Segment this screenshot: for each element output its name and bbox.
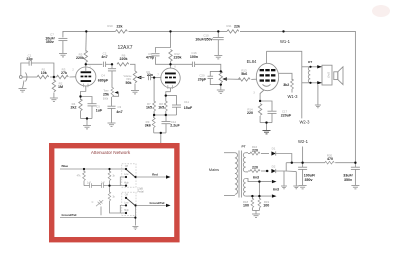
- transformer PT heater secondary: [244, 179, 246, 197]
- arrow OT top: [317, 65, 322, 68]
- wire W2-1: [302, 147, 304, 163]
- node rectifier out: [291, 162, 293, 164]
- svg-text:4n7: 4n7: [101, 55, 107, 59]
- capacitor C11 15uF: [166, 96, 177, 105]
- grid dashes V1b: [165, 77, 176, 79]
- transformer PT core: [238, 151, 240, 198]
- svg-text:3k2: 3k2: [283, 83, 289, 87]
- node sw2 common: [134, 204, 136, 206]
- resistor R10 22k (rail): [116, 30, 128, 33]
- svg-text:25k: 25k: [103, 92, 109, 96]
- node V1a cathode gnd: [86, 117, 88, 119]
- svg-text:350v: 350v: [46, 40, 54, 44]
- svg-text:470: 470: [327, 157, 333, 161]
- svg-text:100uF/: 100uF/: [304, 174, 315, 178]
- node heater r2a: [251, 195, 253, 197]
- wire grid leak drop: [153, 78, 155, 102]
- svg-text:220uF: 220uF: [281, 113, 292, 117]
- node master pot top: [220, 70, 222, 72]
- resistor RA 47k: [83, 169, 85, 172]
- OT primary coil: [302, 66, 309, 68]
- resistor R11 22k (rail): [227, 30, 239, 33]
- node W1-1: [282, 30, 284, 32]
- node sw1 pos2: [125, 176, 127, 178]
- wire sw1 feed mid: [120, 177, 126, 186]
- node D2 row: [266, 170, 268, 172]
- svg-text:22p: 22p: [26, 57, 33, 61]
- svg-text:C4: C4: [101, 74, 105, 78]
- svg-text:680pF: 680pF: [98, 78, 109, 82]
- svg-text:6v3: 6v3: [253, 176, 259, 180]
- wire Blue input: [60, 168, 126, 170]
- wire D2 gnd spur: [286, 170, 296, 173]
- potentiometer VR3 master: [219, 71, 222, 83]
- node input: [53, 76, 55, 78]
- svg-text:22k: 22k: [234, 24, 240, 28]
- wire to grid V1b: [154, 77, 161, 79]
- svg-text:Blue: Blue: [61, 164, 68, 168]
- svg-text:220: 220: [252, 148, 258, 152]
- node sw1 common: [134, 176, 136, 178]
- resistor R8 1k5 (V1b cathode): [165, 96, 167, 102]
- resistor R19 100: [258, 196, 260, 199]
- resistor R2 1M: [53, 77, 55, 81]
- capacitor C1 22p: [21, 63, 29, 76]
- resistor RB 1k: [109, 169, 111, 172]
- svg-text:4n7: 4n7: [116, 110, 122, 114]
- parallel C9 470p + R12 220k (V1b plate): [156, 31, 171, 52]
- wire sw2 out: [136, 204, 166, 206]
- node rail/V1b plate R: [169, 30, 171, 32]
- junction dots: [53, 30, 312, 134]
- svg-text:220: 220: [247, 111, 253, 115]
- svg-text:100: 100: [243, 203, 249, 207]
- svg-text:500k: 500k: [103, 97, 109, 100]
- resistor R1 10k: [37, 75, 49, 78]
- resistor R20 470: [325, 161, 334, 164]
- ground (C7): [59, 54, 67, 57]
- node blue RB: [108, 168, 110, 170]
- wire B+ dc rail: [286, 162, 325, 164]
- wire rail segment 2: [129, 30, 228, 32]
- PSU junction dots: [251, 162, 356, 198]
- heater pins V1b: [168, 85, 173, 89]
- resistor R17 220: [248, 170, 250, 172]
- svg-text:33uF/: 33uF/: [343, 174, 352, 178]
- capacitor CA 1uF: [84, 185, 89, 187]
- wiper VR3: [222, 77, 227, 80]
- ground (humdinger): [252, 214, 260, 217]
- arrow heater row2: [272, 194, 277, 197]
- svg-text:1k5: 1k5: [146, 105, 152, 109]
- wire sw2 feed mid: [120, 205, 126, 213]
- speaker icon: [334, 72, 338, 80]
- node heater r1: [258, 180, 260, 182]
- wire cathode bottom: [81, 118, 93, 120]
- grid dashes V1a: [81, 76, 92, 78]
- attenuator junction dots: [83, 168, 137, 219]
- svg-text:1uF: 1uF: [96, 109, 103, 113]
- resistor R9 3k6: [153, 115, 155, 118]
- resistor R3 27k: [57, 75, 69, 78]
- node tail: [160, 132, 162, 134]
- watermark smudge: [372, 5, 390, 17]
- ground (V1 cathode): [83, 126, 91, 129]
- cathode bar V1b: [165, 82, 176, 84]
- diode D1: [271, 151, 275, 155]
- resistor R5 220k (V1 plate load): [85, 31, 88, 51]
- capacitor C17 220uF: [260, 101, 272, 111]
- capacitor C18 100uF/350v: [302, 163, 304, 168]
- ground (R2): [50, 98, 58, 101]
- wire mid caps: [92, 185, 102, 187]
- ground (attenuator): [132, 227, 138, 230]
- plate bar V1a: [81, 71, 92, 73]
- node blue RA: [83, 168, 85, 170]
- wire gnd spur A: [283, 171, 285, 186]
- svg-text:1uF: 1uF: [101, 181, 106, 184]
- cathode arc V2: [263, 85, 271, 87]
- wire V2 cathode bottom: [260, 122, 272, 124]
- svg-text:High: High: [124, 209, 130, 212]
- svg-text:2.2uF: 2.2uF: [170, 123, 180, 127]
- svg-text:470p: 470p: [146, 55, 155, 59]
- heater pins V1a: [84, 84, 88, 88]
- wiper VR1: [137, 76, 142, 79]
- capacitor C20 20pF: [210, 71, 221, 76]
- speaker box: [322, 65, 332, 85]
- svg-text:6v3: 6v3: [273, 188, 279, 192]
- ground (spur B): [293, 186, 299, 189]
- potentiometer VR1 Volume 50k: [133, 71, 136, 83]
- svg-text:Red: Red: [152, 173, 158, 177]
- wire gnd spur B: [295, 172, 297, 186]
- switch SW1 wiper: [126, 170, 134, 177]
- svg-text:D1: D1: [272, 147, 276, 151]
- screen lead + resistor R15 3k2: [279, 73, 292, 80]
- wire rail segment 3 to right corner: [240, 31, 355, 162]
- resistor R7 1k5 (grid-leak chain): [153, 101, 156, 111]
- cathode bar V1a: [81, 80, 92, 82]
- node V1a plate: [85, 63, 87, 65]
- wire plate to OT: [267, 51, 302, 118]
- node OT bottom: [309, 82, 311, 84]
- trimmer cap CC: [96, 200, 103, 206]
- node sw2 pos2: [125, 204, 127, 206]
- switch SW1 box: [122, 164, 136, 187]
- svg-text:C3: C3: [117, 105, 121, 109]
- svg-text:10k: 10k: [41, 71, 47, 75]
- plate bar V1b: [165, 73, 176, 75]
- wire D1 out: [276, 154, 292, 163]
- svg-text:High: High: [124, 181, 130, 184]
- svg-text:Mains: Mains: [209, 168, 219, 172]
- node row1 right: [165, 114, 167, 116]
- resistor R14 220 (V2 cathode): [258, 104, 261, 116]
- OT secondary arrows: [310, 66, 322, 68]
- node caps mid: [108, 185, 110, 187]
- node C18: [301, 162, 303, 164]
- capacitor C5 1uF (V1 cathode bypass): [81, 97, 93, 104]
- resistor R4 2k2 (V1 cathode): [80, 97, 82, 101]
- capacitor C3 4n7 (tone to gnd): [111, 97, 113, 106]
- svg-text:Pedal: Pedal: [137, 191, 144, 194]
- node bottom drop: [134, 217, 136, 219]
- svg-text:12AX7: 12AX7: [117, 45, 132, 51]
- wire D2 out: [276, 163, 286, 171]
- node sw2 pos3: [125, 212, 127, 214]
- svg-text:Off: Off: [125, 193, 128, 196]
- ground (C19): [351, 186, 359, 189]
- cathode lead V2: [260, 90, 264, 101]
- svg-text:220k: 220k: [174, 55, 182, 59]
- wire heater link: [258, 182, 260, 197]
- ground (speaker): [317, 85, 319, 105]
- transformer PT primary: [224, 152, 235, 154]
- wire sw2 common drop: [134, 205, 136, 225]
- transformer PT HT secondary: [243, 153, 245, 172]
- ground (V2 cathode): [263, 131, 271, 134]
- wire tail node: [154, 132, 166, 134]
- wire heater row1: [250, 181, 272, 183]
- svg-text:R10: R10: [107, 24, 113, 28]
- node rail/C10: [217, 30, 219, 32]
- svg-text:20pF: 20pF: [198, 78, 207, 82]
- input jack J1: [19, 76, 22, 79]
- capacitor C10 10uF/350v: [217, 31, 219, 37]
- node V2 cathode: [259, 100, 261, 102]
- ground (spur A): [281, 186, 287, 189]
- wire humdinger join: [252, 210, 259, 212]
- wire jack to R1: [22, 76, 37, 78]
- resistor RC 1k: [109, 186, 111, 193]
- svg-text:220k: 220k: [120, 57, 128, 61]
- pentode V2 EL84: [256, 63, 278, 90]
- pentode bars: [260, 69, 276, 82]
- ground (C10): [214, 56, 222, 59]
- switch SW2 wiper: [126, 198, 134, 205]
- svg-text:C: C: [92, 201, 94, 204]
- svg-text:10uF/350v: 10uF/350v: [195, 38, 212, 42]
- node heater r2b: [258, 195, 260, 197]
- node V1b grid: [153, 76, 155, 78]
- svg-text:100: 100: [263, 203, 269, 207]
- node V2 cathode gnd: [265, 121, 267, 123]
- wire V1 plate node right: [86, 63, 103, 65]
- capacitor C19 33uF/350v: [354, 163, 356, 168]
- svg-text:Ground/Tail: Ground/Tail: [62, 213, 77, 217]
- diode D2: [271, 169, 275, 173]
- wiper VR2: [115, 91, 119, 94]
- capacitor C7 10uF/350v: [62, 31, 64, 37]
- node rail/V1a plate R: [85, 30, 87, 32]
- node V1b plate: [169, 63, 171, 65]
- svg-text:50k: 50k: [126, 81, 132, 85]
- red highlight box: [52, 146, 177, 240]
- svg-text:D2: D2: [272, 165, 276, 169]
- capacitor C12 2.2uF: [165, 115, 167, 122]
- ground (VR1): [131, 91, 139, 94]
- svg-text:1k5: 1k5: [158, 105, 164, 109]
- wire R1 to node: [50, 76, 57, 78]
- svg-text:Low: Low: [124, 173, 129, 176]
- wire sw1 out: [136, 176, 166, 178]
- arrow heater row1: [272, 180, 277, 183]
- svg-text:350v: 350v: [344, 178, 352, 182]
- wire B+ top rail: [63, 31, 116, 33]
- triode V1a 12AX7: [76, 67, 96, 86]
- svg-text:W1-3: W1-3: [287, 94, 298, 99]
- svg-text:Low: Low: [124, 201, 129, 204]
- svg-text:1uF: 1uF: [87, 181, 92, 184]
- node sw1 pos3: [125, 185, 127, 187]
- svg-text:EL84: EL84: [247, 59, 257, 64]
- svg-text:W2-3: W2-3: [299, 119, 310, 124]
- capacitor C4 680pF (to tone): [111, 64, 113, 68]
- node C4 tap: [111, 63, 113, 65]
- svg-text:C11: C11: [184, 100, 189, 104]
- node OT top: [309, 66, 311, 68]
- svg-text:SPKR: SPKR: [327, 72, 330, 79]
- svg-text:27k: 27k: [61, 71, 67, 75]
- svg-text:OT: OT: [308, 60, 312, 64]
- svg-text:Ground/Tail: Ground/Tail: [150, 201, 165, 205]
- switch SW2 box: [122, 192, 136, 215]
- node row1 left: [153, 114, 155, 116]
- triode V1b 12AX7: [161, 68, 180, 88]
- node V1b cathode: [165, 94, 167, 96]
- capacitor C6 22n (coupling): [148, 75, 150, 80]
- svg-text:2k2: 2k2: [71, 106, 77, 110]
- wire heater row2: [248, 195, 272, 197]
- arrow OT bottom: [317, 81, 322, 84]
- svg-text:350v: 350v: [305, 178, 313, 182]
- wire RC to sw2: [110, 207, 127, 213]
- svg-text:Off: Off: [125, 165, 128, 168]
- ground (jack): [19, 89, 27, 92]
- svg-text:5k6: 5k6: [241, 72, 247, 76]
- wire trimmer drop: [100, 207, 102, 216]
- svg-text:220: 220: [252, 166, 258, 170]
- svg-text:15uF: 15uF: [184, 106, 193, 110]
- resistor R18 100: [251, 196, 253, 199]
- resistor R6 220k (series to volume): [117, 63, 129, 66]
- wire Ground/Tail bottom: [60, 217, 135, 219]
- svg-text:220k: 220k: [76, 56, 84, 60]
- arrow Red out: [166, 175, 171, 178]
- capacitor C2 4n7: [103, 62, 105, 67]
- node sw1 pos1: [125, 168, 127, 170]
- capacitor C16 100n (coupling): [171, 63, 193, 65]
- wire 27k to grid V1: [70, 76, 77, 78]
- node master pot bottom: [220, 83, 222, 85]
- potentiometer VR2 Tone 25k: [111, 87, 114, 96]
- arrow GroundTail out: [166, 204, 171, 207]
- svg-text:W2-1: W2-1: [298, 139, 309, 144]
- svg-text:1M: 1M: [58, 85, 63, 89]
- svg-text:PT: PT: [242, 145, 246, 149]
- ground (C3): [108, 123, 116, 126]
- ground (VR3): [217, 90, 225, 93]
- resistor R16 220: [248, 153, 250, 155]
- wire row join: [154, 114, 176, 116]
- svg-text:22k: 22k: [117, 24, 123, 28]
- svg-text:W1-1: W1-1: [280, 39, 291, 44]
- svg-text:R11: R11: [226, 24, 231, 28]
- ground (C18): [299, 186, 307, 189]
- node sw2 pos1: [125, 197, 127, 199]
- svg-text:Attenuator Network: Attenuator Network: [91, 150, 131, 155]
- svg-text:3k6: 3k6: [145, 123, 151, 127]
- svg-text:100n: 100n: [190, 55, 198, 59]
- node C19: [354, 162, 356, 164]
- svg-text:22n: 22n: [147, 73, 153, 77]
- node V1a cathode: [79, 95, 81, 97]
- wire tail to attenuator: [160, 133, 162, 144]
- capacitor CB 1uF: [102, 183, 104, 188]
- resistor R13 5k6 (grid stopper): [238, 78, 250, 81]
